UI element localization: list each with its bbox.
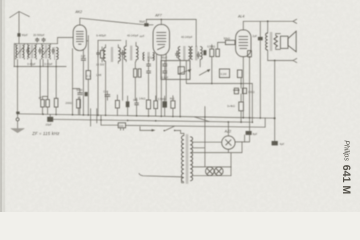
drop x260 (259, 21, 261, 118)
reservoir cap 4uF (272, 141, 278, 145)
AZ2 filament wire (193, 142, 242, 167)
stacked caps in box (162, 64, 167, 73)
power transformer core (186, 134, 187, 184)
earth terminal blob (16, 112, 19, 114)
tube AK2 envelope (73, 25, 86, 51)
IF transformer 2 winding pair D (178, 47, 180, 60)
heater right link (230, 167, 232, 176)
wire drop x17.5 to ground bus (17, 59, 19, 118)
grid capacitor 50pF (144, 23, 148, 26)
decoupling cap 5000 (73, 89, 80, 115)
smoothing cap 10uF (49, 114, 51, 121)
AL4 cathode drop (243, 57, 249, 118)
AL4 cathode resistor (248, 51, 252, 57)
bypass cap block (258, 37, 263, 40)
band switch arrow 1 (179, 70, 191, 74)
junction dots bus1 (17, 113, 19, 115)
AK2 anode lead (86, 40, 88, 42)
main ground bus (18, 114, 275, 118)
AVC wire y83.5 (186, 83, 252, 85)
coil pair C under AF7 (143, 52, 144, 60)
voltage selector box 220V (118, 123, 125, 128)
HT tap to AZ2 (193, 141, 222, 143)
wire drop x179 (179, 60, 181, 117)
AZ2 electrodes (225, 139, 231, 145)
box cap feed wire (164, 61, 166, 80)
ground symbol (11, 129, 25, 133)
band trimmer a (26, 48, 29, 55)
row blob 2 (126, 101, 130, 107)
tap mid (193, 107, 205, 167)
tube AF7 envelope (153, 25, 169, 56)
input bus wire (14, 43, 57, 45)
wire drop x122.6 (122, 57, 124, 100)
row res 5 (154, 101, 158, 109)
wire drop x105 (105, 63, 107, 115)
dial lamp 1 (206, 167, 215, 176)
wire drop x98 (97, 40, 99, 115)
AK2 grid-left lead (58, 38, 74, 44)
tuning top wire (98, 39, 121, 41)
band trimmer b (38, 48, 41, 55)
wire drop x40 (39, 59, 41, 99)
wire drop x101 (101, 115, 118, 125)
antenna series capacitor (17, 33, 20, 36)
wire drop x14 (13, 44, 15, 67)
antenna/oscillator coil pair 2 (28, 44, 37, 60)
mains cord (139, 173, 184, 182)
AK2 screen drop with 2uF cap (82, 50, 84, 115)
grid coupling wire to AF7 (80, 18, 144, 25)
tone unit box (161, 61, 190, 80)
drop x212 (211, 45, 213, 84)
drop x252 (251, 84, 253, 123)
bank bus dots (17, 66, 19, 68)
caption Philips (342, 140, 349, 161)
primary top lead (181, 131, 184, 136)
AL4 anode top lead (242, 21, 244, 30)
coil bank bottom bus (14, 66, 66, 68)
capacitor 2uF (81, 58, 86, 60)
resistor row a (41, 100, 45, 107)
band trimmer c (52, 48, 55, 55)
trimmer pair on input (35, 38, 45, 43)
drop x241 (240, 78, 242, 123)
box resistor (178, 67, 184, 74)
wire drop x43 (42, 59, 44, 66)
heater tap bottom (193, 175, 231, 177)
row res 7 (171, 101, 175, 108)
HT bus 2 (51, 119, 250, 122)
wire 50k to AL4 (234, 41, 237, 43)
tube AF7 electrodes (156, 33, 166, 50)
AF7 top cap lead (160, 19, 162, 24)
padder caps below pair B (134, 62, 136, 100)
anode drop wire x88 (87, 36, 89, 116)
row res 4 (146, 100, 150, 109)
wire drop x90 (91, 109, 97, 127)
junction dot output (267, 20, 269, 22)
trimmer right of pair A (121, 50, 124, 57)
junction dots mid (211, 83, 213, 85)
trimmer right of IF2 (197, 52, 200, 59)
mains switch blade (165, 126, 175, 131)
resistor 0.5M b (216, 49, 220, 57)
wire cap to AF7 (146, 19, 153, 24)
antenna/oscillator coil pair 1 (16, 44, 25, 60)
AZ2 output lead (235, 135, 245, 142)
speaker cone (288, 31, 296, 52)
output transformer primary (266, 33, 268, 50)
resistor 3-4k (239, 102, 244, 111)
resistor row c (54, 98, 58, 107)
wire drop x48 (47, 59, 49, 99)
band switch arrow 2 (199, 70, 209, 76)
heater tap top (193, 166, 231, 168)
resistor right of pot (237, 70, 242, 78)
trimmer left of pair A (96, 50, 99, 57)
ground lead (17, 121, 19, 128)
tube AK2 top cap lead (79, 18, 81, 25)
wire end arrow bottom (293, 58, 297, 62)
series resistor x102 (100, 51, 103, 59)
secondary to speaker wires (276, 34, 281, 50)
padding cap Cv (105, 95, 111, 97)
row cap 3 (134, 103, 138, 105)
HT junction dot (274, 117, 276, 119)
electrolytic 4uF b (242, 88, 246, 93)
switch arrow (152, 129, 156, 131)
row stubs (117, 60, 172, 117)
HT feed x250 (245, 118, 250, 142)
antenna lead wire (18, 37, 20, 44)
smoothing cap 8uF (246, 131, 252, 135)
HT rail drop x274.7 (274, 61, 276, 142)
row blob 6 (162, 101, 167, 107)
ground terminal circle (16, 118, 19, 121)
AK2 cathode drop x72.5 (72, 49, 74, 115)
oscillator coil pair B (124, 46, 126, 60)
oscillator padder coil (56, 48, 58, 60)
output transformer primary lead (267, 21, 269, 33)
wire drop x31 (30, 59, 32, 66)
tube AK2 electrodes (76, 32, 84, 45)
electrolytic 4uF a (234, 88, 238, 94)
junction dots bus2 (100, 119, 102, 121)
coupling cap det (203, 50, 206, 55)
tube AL4 electrodes (239, 37, 248, 49)
IF transformer 2 winding pair E (191, 47, 193, 60)
resistor 0.5M a (210, 49, 214, 57)
output transformer core (270, 32, 271, 51)
tube AL4 envelope (236, 30, 251, 57)
caption 641 M (340, 165, 352, 195)
resistor row d (77, 99, 81, 108)
wire drop x56 (55, 61, 57, 99)
junction dot return (274, 60, 276, 62)
output transformer secondary (274, 36, 277, 48)
stacked caps left of box (146, 64, 151, 73)
grid wire to 50k (218, 42, 226, 49)
resistor row b (46, 100, 50, 107)
tube AZ2 envelope (222, 136, 235, 149)
page left edge shading (0, 0, 2, 212)
mains switch wire (140, 129, 181, 131)
IF coil pair A (104, 48, 106, 62)
screen resistor 0.1M (86, 71, 91, 80)
power transformer primary (181, 136, 183, 182)
resistor 50k (225, 40, 235, 44)
volume pot box (219, 69, 229, 78)
wire drop x186 (185, 61, 187, 84)
AF7 pin drops (157, 54, 167, 116)
antenna (10, 12, 30, 34)
anode wire to output (243, 20, 293, 22)
dial lamp 2 (215, 167, 224, 176)
wire end arrow top (293, 19, 297, 23)
selector to switch wire (126, 118, 266, 130)
speaker magnet (280, 36, 288, 48)
switch contact dots (164, 130, 165, 131)
output transformer bottom lead (267, 50, 269, 60)
row cap 1 (115, 100, 119, 108)
selector pins (121, 128, 124, 130)
top wire AF7 to IF2 (146, 18, 196, 20)
return wire y60.5 (268, 60, 293, 62)
power transformer secondary (190, 137, 192, 181)
AZ2 top lead (227, 122, 229, 136)
trimmer left of IF2 (175, 51, 178, 58)
wire stubs row (43, 96, 79, 114)
wire drop x200 (199, 60, 201, 67)
wire drop x196 (195, 19, 197, 46)
bus jog diagonal (194, 117, 209, 122)
antenna/oscillator coil pair 3 (42, 44, 51, 60)
